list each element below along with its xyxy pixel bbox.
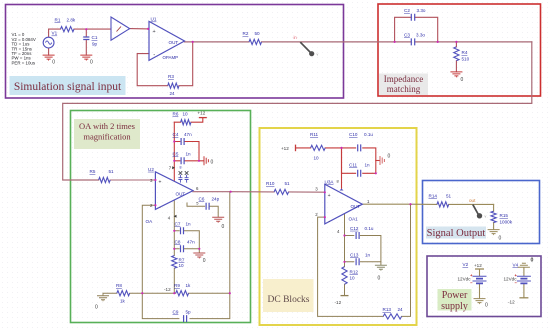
svg-text:9p: 9p	[92, 42, 98, 47]
svg-text:R1: R1	[55, 18, 61, 23]
capacitor C1	[83, 35, 98, 46]
svg-text:C13: C13	[350, 252, 359, 257]
svg-text:Signal Output: Signal Output	[427, 228, 486, 239]
capacitor C6	[196, 196, 219, 210]
svg-text:C2: C2	[404, 8, 410, 13]
svg-text:U3A: U3A	[325, 179, 335, 184]
svg-text:0: 0	[211, 160, 214, 166]
svg-text:+: +	[328, 193, 331, 199]
svg-text:R9: R9	[174, 283, 180, 288]
svg-text:0: 0	[388, 154, 391, 160]
svg-text:10: 10	[179, 263, 185, 268]
wire R8 ground branch	[103, 292, 142, 294]
svg-text:C10: C10	[349, 132, 358, 137]
wire U2 output to node	[193, 191, 231, 193]
resistor R12	[342, 267, 358, 285]
svg-text:V2: V2	[463, 262, 469, 267]
svg-text:24p: 24p	[212, 196, 220, 201]
svg-text:5p: 5p	[186, 309, 192, 314]
svg-text:OA with 2 times: OA with 2 times	[79, 121, 135, 131]
svg-text:U1: U1	[151, 17, 157, 22]
resistor R2	[243, 31, 262, 44]
wire U2 pin5 to C6 to ground	[187, 203, 218, 217]
wire C4 branch	[174, 142, 199, 161]
svg-text:1n: 1n	[365, 163, 371, 168]
wire +12 bar to R11 to node	[296, 147, 342, 149]
no-connect X caps on U2 top pins	[178, 166, 188, 183]
wire +12 bar to R6	[174, 118, 203, 122]
SECTION:COMPONENTS	[12, 8, 470, 322]
wire U1 output main line to impedance box	[185, 41, 532, 43]
wire V4 stems	[523, 268, 525, 298]
wire C10 C11 ground stub	[376, 160, 380, 162]
svg-text:8: 8	[180, 166, 182, 170]
svg-text:24: 24	[170, 91, 176, 96]
svg-text:0: 0	[499, 236, 502, 242]
svg-text:R11: R11	[310, 132, 319, 137]
svg-text:OUT: OUT	[351, 204, 361, 209]
svg-text:47n: 47n	[187, 239, 195, 244]
svg-text:-: -	[328, 219, 330, 225]
svg-text:+12: +12	[198, 111, 206, 116]
op-amp U1	[149, 17, 185, 61]
svg-text:C5: C5	[173, 152, 179, 157]
svg-text:OA: OA	[146, 219, 154, 224]
capacitor C9	[173, 309, 192, 322]
svg-text:0: 0	[531, 257, 534, 263]
ground 0 left of R8	[97, 293, 109, 301]
wire C5 branch to rotated ground	[174, 160, 203, 162]
capacitor C4	[173, 132, 193, 145]
capacitor C3	[404, 33, 425, 46]
svg-text:C1: C1	[92, 35, 98, 40]
svg-text:+12: +12	[474, 263, 482, 268]
wire V+ rail R6 down to U2 pin7	[173, 122, 175, 181]
svg-text:V1: V1	[52, 31, 58, 36]
wire C11 branch	[342, 148, 376, 173]
svg-text:OUT: OUT	[176, 191, 186, 196]
box: Power supply	[427, 256, 541, 317]
wire R1 to C1 node to buffer	[74, 28, 111, 30]
ground 0 below R15	[488, 230, 500, 236]
svg-text:0: 0	[95, 305, 98, 311]
wire buffer to U1 plus input	[130, 28, 149, 30]
rotated ground right of C5	[204, 156, 208, 165]
wire U3A pin8 rail	[341, 148, 343, 188]
svg-text:R4: R4	[462, 50, 468, 55]
svg-text:+: +	[153, 29, 156, 35]
svg-text:R14: R14	[429, 193, 438, 198]
svg-text:Power: Power	[442, 290, 468, 301]
svg-text:R8: R8	[116, 283, 122, 288]
resistor R1	[55, 18, 76, 32]
svg-text:C6: C6	[199, 196, 205, 201]
svg-text:24: 24	[398, 307, 404, 312]
resistor R6	[173, 112, 192, 125]
capacitor C8	[175, 239, 196, 252]
capacitor C7	[175, 221, 192, 234]
svg-text:Simulation signal input: Simulation signal input	[14, 81, 122, 93]
svg-text:1k: 1k	[120, 299, 126, 304]
svg-text:C7: C7	[175, 221, 181, 226]
svg-text:magnification: magnification	[83, 132, 131, 142]
resistor R5	[90, 169, 115, 183]
svg-text:51: 51	[109, 169, 115, 174]
wire C2 bridge	[395, 17, 438, 42]
svg-text:0.1u: 0.1u	[365, 226, 374, 231]
svg-text:2.8k: 2.8k	[67, 18, 76, 23]
ground 0 below C8	[193, 253, 205, 259]
ground 0 below C13	[375, 265, 387, 271]
capacitor C2	[404, 8, 426, 21]
svg-text:OA1: OA1	[349, 216, 359, 221]
capacitor C13	[350, 252, 371, 265]
svg-text:+: +	[159, 180, 162, 186]
svg-text:DC Blocks: DC Blocks	[268, 295, 310, 305]
svg-text:v: v	[485, 215, 487, 219]
resistor R14	[429, 193, 452, 207]
wire C7 branch	[174, 231, 199, 249]
svg-text:0: 0	[90, 60, 93, 66]
svg-text:OUT: OUT	[169, 40, 179, 45]
wire C10 branch	[342, 148, 376, 173]
SECTION:COMPONENTS2	[266, 132, 534, 319]
resistor R11	[310, 132, 325, 161]
capacitor C5	[173, 152, 192, 165]
ground 0 above V4	[518, 263, 530, 267]
svg-text:12Vdc: 12Vdc	[458, 276, 472, 281]
svg-text:-: -	[153, 53, 155, 59]
svg-text:10: 10	[314, 156, 320, 161]
svg-text:C3: C3	[404, 33, 410, 38]
svg-text:1000k: 1000k	[500, 220, 513, 225]
rotated ground right rail dc blocks	[380, 156, 384, 165]
wire U3A output to node to R14	[362, 203, 493, 205]
svg-text:51: 51	[446, 193, 452, 198]
power -12 bar dc blocks	[335, 296, 349, 305]
svg-text:3.3o: 3.3o	[417, 8, 426, 13]
resistor R3	[168, 74, 179, 96]
wire node to R10	[231, 191, 325, 194]
box: DC Blocks	[260, 128, 417, 325]
svg-text:0: 0	[485, 303, 488, 309]
svg-text:10: 10	[183, 112, 189, 117]
battery V4	[504, 263, 531, 284]
svg-text:0.1u: 0.1u	[364, 132, 373, 137]
svg-text:0: 0	[203, 258, 206, 264]
svg-text:Impedance: Impedance	[384, 74, 423, 84]
box: Impedance matching	[378, 4, 541, 96]
wire C8 branch to ground	[174, 249, 199, 253]
op-amp U3A	[315, 178, 370, 234]
svg-text:12Vdc: 12Vdc	[504, 276, 518, 281]
probe marker out	[469, 198, 487, 219]
buffer amplifier	[111, 17, 130, 40]
ground 0 below V2	[474, 299, 486, 305]
svg-text:R10: R10	[266, 181, 275, 186]
ground 0 below R4	[450, 72, 462, 78]
ground 0 below C6	[212, 217, 224, 223]
svg-text:0: 0	[222, 224, 225, 230]
svg-text:C4: C4	[173, 132, 179, 137]
svg-text:supply: supply	[441, 301, 468, 312]
svg-text:-12: -12	[164, 287, 171, 292]
svg-text:10: 10	[350, 276, 356, 281]
svg-text:C11: C11	[349, 163, 358, 168]
svg-text:1n: 1n	[186, 152, 192, 157]
svg-text:R13: R13	[383, 307, 392, 312]
svg-text:47n: 47n	[184, 132, 192, 137]
svg-text:-12: -12	[335, 300, 342, 305]
svg-text:matching: matching	[387, 84, 421, 94]
wire V1 bottom to ground	[48, 48, 50, 55]
svg-text:v: v	[317, 53, 319, 57]
ground 0 below C1	[80, 55, 92, 61]
svg-text:C8: C8	[175, 239, 181, 244]
wire R15 branch down	[493, 204, 495, 229]
wire U2 minus input left rail down	[142, 192, 230, 319]
svg-text:51: 51	[285, 181, 291, 186]
wire V2 stems	[479, 269, 481, 298]
box: Simulation signal input	[6, 5, 344, 99]
wire U3A feedback loop with R13	[318, 204, 411, 316]
svg-text:R7: R7	[179, 258, 185, 263]
svg-text:V4: V4	[513, 263, 519, 268]
wire C13 branch to ground	[345, 262, 381, 265]
svg-text:U2: U2	[148, 167, 154, 172]
wire R5 to U2 plus input	[110, 179, 155, 181]
resistor R13	[383, 307, 404, 319]
box: OA with 2 times magnification	[71, 111, 251, 323]
svg-text:0: 0	[461, 77, 464, 83]
power +12 bar green box	[198, 111, 207, 118]
op-amp U2	[146, 166, 200, 224]
wire C12 branch	[345, 236, 381, 262]
svg-text:1n: 1n	[365, 252, 371, 257]
svg-text:R12: R12	[350, 270, 359, 275]
svg-text:R2: R2	[243, 31, 249, 36]
svg-text:PER = 10us: PER = 10us	[12, 60, 36, 65]
resistor R7	[172, 256, 185, 269]
svg-text:1k: 1k	[186, 283, 192, 288]
resistor R15	[491, 211, 513, 224]
svg-text:1n: 1n	[186, 221, 192, 226]
svg-text:R5: R5	[90, 169, 96, 174]
voltage source V1	[43, 31, 57, 48]
power +12 bar dc blocks	[281, 145, 296, 152]
wire R4 to ground	[455, 42, 457, 72]
svg-text:+12: +12	[281, 146, 289, 151]
wire U2 pin4 rail down	[173, 200, 175, 293]
svg-text:R3: R3	[168, 74, 174, 79]
power +12 bar V2	[474, 263, 484, 269]
wire U1 feedback loop with R3	[137, 42, 193, 86]
wire V1 top to R1	[49, 29, 61, 37]
svg-text:50: 50	[255, 31, 261, 36]
box: Signal Output	[423, 181, 540, 244]
wire R9 feedback	[142, 292, 230, 294]
svg-text:C9: C9	[173, 309, 179, 314]
wire U3A pin4 rail	[344, 214, 346, 296]
svg-text:510: 510	[462, 57, 470, 62]
capacitor C12	[350, 226, 374, 239]
probe marker in	[294, 35, 319, 56]
svg-text:-: -	[159, 205, 161, 211]
svg-text:OPAMP: OPAMP	[163, 55, 179, 60]
wire C1 to node and ground	[85, 29, 87, 55]
capacitor C10	[349, 132, 373, 151]
capacitor C11	[349, 163, 370, 177]
resistor R8	[116, 283, 130, 304]
svg-text:C12: C12	[350, 226, 359, 231]
resistor R9	[174, 283, 191, 296]
battery V2	[458, 262, 487, 283]
svg-text:R6: R6	[173, 112, 179, 117]
svg-text:0: 0	[52, 60, 55, 66]
svg-text:-12: -12	[508, 300, 515, 305]
svg-text:3.3o: 3.3o	[416, 33, 425, 38]
resistor R4	[454, 47, 470, 62]
power -12 bar V4	[508, 298, 528, 305]
svg-text:0: 0	[378, 276, 381, 282]
resistor R10	[266, 181, 290, 195]
svg-text:out: out	[469, 198, 476, 203]
wire return path right edge down and back left to R5	[63, 42, 532, 180]
ground 0 below V1	[43, 55, 55, 61]
svg-text:R15: R15	[500, 213, 509, 218]
